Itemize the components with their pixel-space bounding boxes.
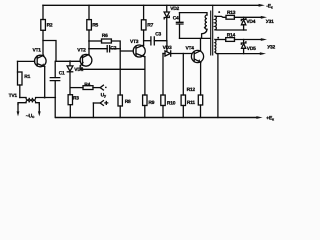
svg-text:R9: R9: [148, 100, 154, 106]
svg-text:VT3: VT3: [130, 39, 139, 45]
svg-text:VD3: VD3: [163, 45, 172, 51]
svg-text:~Uc: ~Uc: [26, 113, 35, 119]
svg-text:R3: R3: [73, 95, 79, 101]
svg-text:У32: У32: [267, 44, 275, 50]
svg-text:C1: C1: [59, 71, 65, 77]
svg-text:R1: R1: [24, 74, 30, 80]
svg-text:R13: R13: [227, 10, 236, 16]
svg-text:R8: R8: [125, 99, 131, 105]
svg-text:VD5: VD5: [247, 46, 256, 52]
svg-text:VD4: VD4: [246, 19, 255, 25]
svg-text:+Eк: +Eк: [266, 116, 274, 122]
svg-text:C2: C2: [110, 45, 116, 51]
svg-text:R5: R5: [92, 22, 98, 28]
svg-text:TV1: TV1: [9, 93, 18, 99]
svg-text:R10: R10: [167, 100, 176, 106]
svg-text:C4: C4: [173, 15, 179, 21]
svg-text:R4: R4: [84, 82, 90, 88]
svg-text:VT2: VT2: [77, 48, 86, 54]
svg-text:VD1: VD1: [74, 67, 83, 73]
svg-text:C3: C3: [155, 31, 161, 37]
svg-text:R2: R2: [47, 22, 53, 28]
svg-text:VD2: VD2: [170, 6, 179, 12]
svg-text:R6: R6: [102, 33, 108, 39]
svg-text:У31: У31: [266, 19, 274, 25]
svg-text:R7: R7: [147, 22, 153, 28]
svg-text:R14: R14: [227, 33, 236, 39]
svg-text:VT4: VT4: [186, 45, 195, 51]
svg-text:-Eк: -Eк: [266, 4, 273, 10]
svg-text:VT1: VT1: [33, 48, 42, 54]
svg-text:R12: R12: [187, 87, 196, 93]
svg-text:R11: R11: [187, 100, 196, 106]
